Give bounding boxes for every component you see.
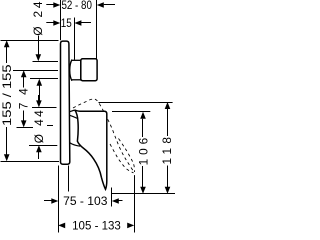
extension line wall face (top, for 52-80 and 15) (60, 0, 62, 40)
dimension 118 (160, 102, 174, 194)
lever handle (solid, closed position) (75, 110, 107, 189)
extension line knob axis (13, 70, 58, 72)
svg-text:Ø 24: Ø 24 (31, 1, 45, 35)
svg-text:75 - 103: 75 - 103 (63, 194, 108, 208)
diverter knob cap (81, 59, 97, 81)
svg-text:52 - 80: 52 - 80 (61, 0, 92, 12)
dimension Ø 24 (knob diameter) (31, 1, 45, 101)
dimension 155 / 155 (0, 40, 14, 161)
svg-text:155 / 155: 155 / 155 (0, 64, 14, 126)
extension line knob top (33, 61, 59, 63)
extension line knob bottom (30, 78, 58, 80)
diverter knob stem (tapered base with bulge) (70, 60, 72, 81)
extension line knob step (for 15) (74, 18, 76, 60)
handle sleeve bottom (70, 143, 80, 146)
handle sleeve lower cone edge (70, 115, 78, 118)
dimension Ø 44 (sleeve diameter) (32, 95, 46, 159)
svg-text:15: 15 (61, 16, 72, 30)
extension line sleeve top (32, 107, 57, 109)
svg-text:118: 118 (160, 137, 174, 165)
svg-text:106: 106 (136, 137, 150, 165)
extension line solid-lever top (for 106) (112, 111, 150, 113)
centerline handle axis (17, 127, 34, 129)
svg-text:105 - 133: 105 - 133 (72, 219, 121, 233)
extension line dashed lever reach (for 105-133) (134, 175, 136, 232)
handle sleeve top cone edge (70, 110, 75, 112)
dimension 105 - 133 (58, 219, 134, 233)
dimension 75 - 103 (44, 194, 123, 208)
extension line plate-top level (left) (1, 40, 59, 42)
extension line wall face (bottom, for 75-103 and 105-133) (58, 166, 60, 233)
extension line knob face (for 52-80) (96, 0, 98, 59)
dimension 106 (136, 112, 150, 194)
escutcheon plate (side view) (61, 41, 70, 164)
extension line sleeve bottom (29, 145, 57, 147)
dashed raised lever: outer front edge (119, 139, 135, 173)
svg-text:Ø 44: Ø 44 (32, 110, 46, 143)
dimension 52 - 80 (46, 0, 115, 12)
dashed raised lever: top edge bump and front edge (73, 99, 134, 172)
dimension 15 (46, 16, 91, 30)
dashed raised lever: back/under edge (110, 144, 134, 173)
extension line plate front face (bottom) (68, 166, 70, 192)
dimension 74 (knob axis to handle axis) (17, 70, 31, 127)
extension line plate-bottom level (left) (1, 161, 60, 163)
extension line dashed-lever top (for 118) (99, 102, 173, 104)
extension line bottom level (for 106 and 118) (112, 193, 175, 195)
diverter knob step (80, 59, 82, 80)
extension line solid lever tip (for 75-103) (111, 188, 113, 207)
